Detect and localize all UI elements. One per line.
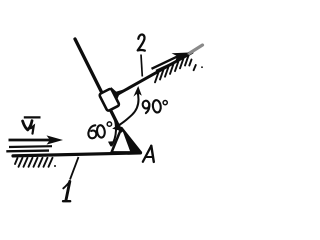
label v1 letter v — [23, 121, 32, 130]
triangle wedge at A — [112, 128, 141, 152]
label 90deg: digit 9 — [142, 100, 150, 113]
label 90deg: degree circle — [163, 101, 167, 105]
rod 2 — [115, 53, 193, 97]
label v1 subscript 1 — [31, 126, 34, 134]
label 60deg: degree circle — [107, 122, 111, 126]
speed line A under arrow — [9, 145, 52, 148]
60 degree arc — [111, 114, 116, 146]
rod 2 gray tip — [189, 45, 203, 54]
speed line along rod 2 — [156, 61, 177, 71]
rod 1 — [13, 153, 141, 156]
label 60deg: digit 0 — [96, 125, 105, 138]
60 arc arrowhead (points at rod 1) — [108, 136, 115, 147]
velocity arrow v1 — [9, 135, 64, 144]
leader line for label 1 — [70, 157, 79, 180]
90 degree arc — [116, 92, 139, 128]
label v1 overbar — [24, 116, 41, 118]
long rod through slider — [75, 39, 121, 131]
label 90deg: digit 0 — [152, 100, 161, 113]
fillet blob where rod 2 meets slider — [111, 87, 125, 102]
90 arc arrowhead upper (points at rod 2) — [133, 86, 141, 97]
label A — [143, 146, 154, 162]
label 60deg: digit 6 — [88, 125, 96, 138]
hatching along rod 2 (fixed guide) — [155, 56, 203, 83]
velocity arrow along rod 2 — [152, 53, 190, 69]
label 2 — [138, 34, 145, 50]
label 1 — [63, 181, 70, 201]
speed line B under arrow — [6, 149, 49, 152]
hatching under rod 1 (fixed guide) — [15, 158, 56, 167]
90 arc arrowhead lower (points at long rod) — [112, 121, 124, 131]
slider square on long rod — [99, 88, 120, 111]
leader line for label 2 — [141, 55, 142, 77]
